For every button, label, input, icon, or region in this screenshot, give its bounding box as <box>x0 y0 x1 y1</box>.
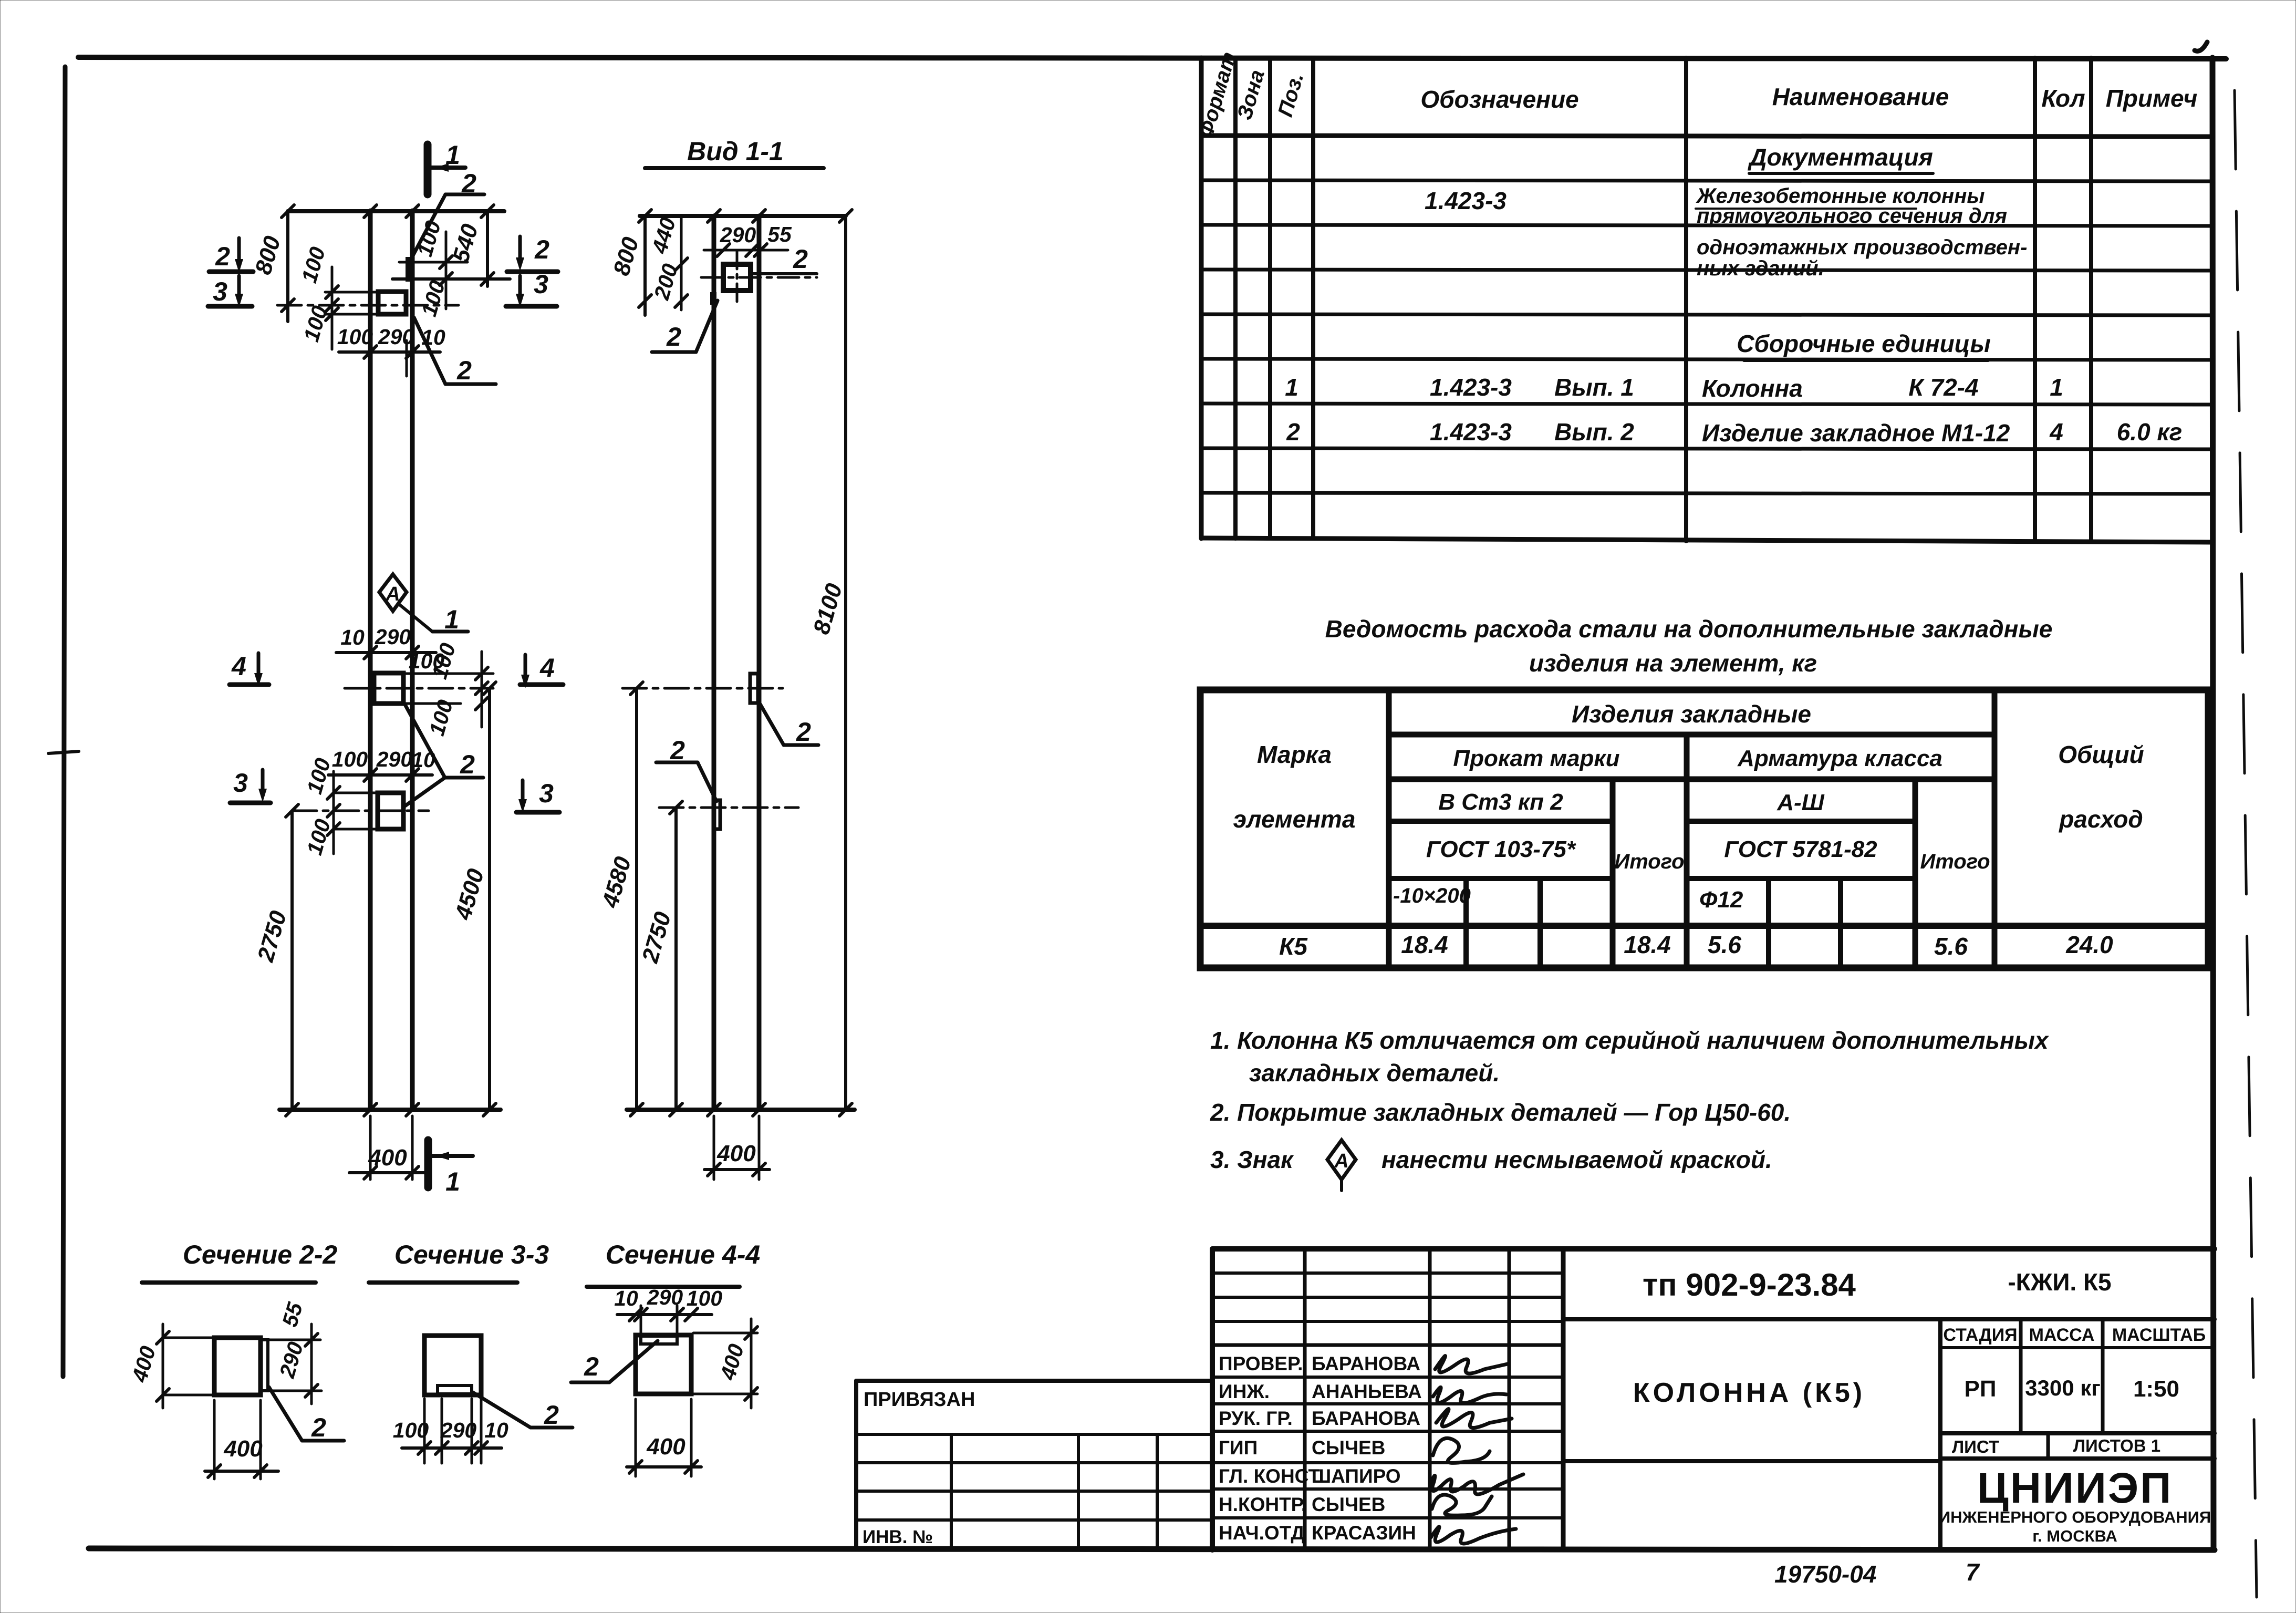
svg-text:К5: К5 <box>1279 933 1308 960</box>
svg-text:тп 902-9-23.84: тп 902-9-23.84 <box>1643 1267 1856 1302</box>
svg-text:5.6: 5.6 <box>1708 931 1741 958</box>
svg-text:A: A <box>385 583 400 605</box>
svg-text:Сборочные единицы: Сборочные единицы <box>1737 330 1991 357</box>
svg-text:Итого: Итого <box>1614 850 1684 873</box>
svg-text:Зона: Зона <box>1233 67 1269 122</box>
svg-text:КОЛОННА (К5): КОЛОННА (К5) <box>1633 1378 1865 1408</box>
svg-text:440: 440 <box>647 215 680 257</box>
svg-text:Сечение 4-4: Сечение 4-4 <box>606 1240 760 1269</box>
svg-text:3: 3 <box>534 270 548 299</box>
svg-text:400: 400 <box>716 1141 756 1166</box>
svg-text:4500: 4500 <box>450 866 490 923</box>
svg-text:ГИП: ГИП <box>1219 1437 1258 1459</box>
svg-text:Сечение 2-2: Сечение 2-2 <box>183 1240 338 1269</box>
svg-text:400: 400 <box>646 1434 685 1460</box>
svg-text:Обозначение: Обозначение <box>1420 86 1578 113</box>
svg-text:290: 290 <box>275 1339 308 1381</box>
svg-text:2: 2 <box>460 750 475 779</box>
svg-text:А-Ш: А-Ш <box>1776 790 1824 815</box>
svg-text:Ф12: Ф12 <box>1699 887 1743 913</box>
svg-text:400: 400 <box>715 1341 749 1383</box>
svg-text:изделия на элемент, кг: изделия на элемент, кг <box>1529 649 1817 677</box>
svg-text:Примеч: Примеч <box>2106 85 2198 112</box>
svg-text:-10×200: -10×200 <box>1393 884 1471 907</box>
svg-text:8100: 8100 <box>808 581 847 637</box>
svg-text:19750-04: 19750-04 <box>1774 1560 1876 1588</box>
svg-text:400: 400 <box>127 1343 160 1385</box>
svg-text:элемента: элемента <box>1233 805 1356 833</box>
svg-text:400: 400 <box>223 1436 263 1462</box>
svg-text:2: 2 <box>534 235 549 264</box>
svg-text:1: 1 <box>2050 374 2063 401</box>
svg-text:Изделия закладные: Изделия закладные <box>1572 700 1811 728</box>
svg-text:7: 7 <box>1966 1558 1980 1586</box>
svg-text:НАЧ.ОТД: НАЧ.ОТД <box>1219 1522 1305 1544</box>
svg-text:СЫЧЕВ: СЫЧЕВ <box>1312 1494 1385 1515</box>
svg-text:Общий: Общий <box>2058 741 2144 768</box>
svg-text:Документация: Документация <box>1747 143 1933 171</box>
svg-text:ЦНИИЭП: ЦНИИЭП <box>1977 1464 2173 1512</box>
svg-text:55: 55 <box>767 222 792 246</box>
svg-text:ИНВ. №: ИНВ. № <box>863 1527 933 1547</box>
svg-text:4580: 4580 <box>597 854 637 911</box>
svg-text:2: 2 <box>311 1413 326 1442</box>
svg-text:2: 2 <box>544 1400 559 1430</box>
svg-text:200: 200 <box>649 261 682 303</box>
svg-text:800: 800 <box>608 234 643 278</box>
svg-text:1. Колонна К5 отличается: 1. Колонна К5 отличается от серийной нал… <box>1210 1027 2050 1054</box>
svg-text:ИНЖЕНЕРНОГО ОБОРУДОВАНИЯ: ИНЖЕНЕРНОГО ОБОРУДОВАНИЯ <box>1939 1508 2211 1526</box>
svg-text:6.0 кг: 6.0 кг <box>2117 418 2183 446</box>
svg-text:100: 100 <box>337 325 373 349</box>
svg-text:Прокат марки: Прокат марки <box>1453 746 1619 771</box>
svg-text:г. МОСКВА: г. МОСКВА <box>2032 1527 2117 1545</box>
svg-text:100: 100 <box>417 278 450 319</box>
svg-text:3. Знак: 3. Знак <box>1210 1146 1294 1173</box>
svg-text:2: 2 <box>666 322 681 351</box>
svg-text:4: 4 <box>2049 418 2063 446</box>
svg-text:БАРАНОВА: БАРАНОВА <box>1312 1408 1420 1429</box>
svg-text:3: 3 <box>233 768 248 798</box>
svg-text:10: 10 <box>340 625 365 649</box>
svg-text:1:50: 1:50 <box>2133 1376 2179 1402</box>
svg-text:Вид 1-1: Вид 1-1 <box>687 137 784 166</box>
svg-text:одноэтажных производствен-: одноэтажных производствен- <box>1697 236 2027 259</box>
svg-text:Сечение 3-3: Сечение 3-3 <box>394 1240 549 1269</box>
svg-text:Поз.: Поз. <box>1274 70 1308 120</box>
svg-text:СТАДИЯ: СТАДИЯ <box>1943 1325 2017 1345</box>
svg-text:1: 1 <box>445 140 460 170</box>
svg-text:РУК. ГР.: РУК. ГР. <box>1219 1408 1293 1429</box>
svg-text:1: 1 <box>1285 374 1298 401</box>
svg-text:Наименование: Наименование <box>1772 83 1949 110</box>
svg-text:A: A <box>1334 1150 1348 1172</box>
svg-text:ных зданий.: ных зданий. <box>1697 257 1824 280</box>
svg-text:ГЛ. КОНСТ: ГЛ. КОНСТ <box>1219 1465 1320 1487</box>
svg-text:-КЖИ. К5: -КЖИ. К5 <box>2008 1268 2111 1296</box>
svg-text:Колонна: Колонна <box>1702 375 1803 402</box>
svg-text:Марка: Марка <box>1257 741 1332 768</box>
svg-text:1: 1 <box>445 1167 460 1196</box>
svg-text:2: 2 <box>456 356 472 385</box>
svg-text:290: 290 <box>376 747 413 771</box>
svg-text:Итого: Итого <box>1920 850 1990 873</box>
svg-text:ИНЖ.: ИНЖ. <box>1219 1381 1270 1402</box>
svg-text:Н.КОНТР.: Н.КОНТР. <box>1219 1494 1306 1515</box>
svg-text:4: 4 <box>231 652 246 681</box>
svg-text:Изделие закладное М1-12: Изделие закладное М1-12 <box>1702 419 2010 447</box>
svg-text:2: 2 <box>215 242 230 271</box>
svg-text:1.423-3: 1.423-3 <box>1430 418 1512 446</box>
svg-text:Арматура класса: Арматура класса <box>1737 746 1942 771</box>
svg-text:БАРАНОВА: БАРАНОВА <box>1312 1353 1420 1374</box>
svg-text:РП: РП <box>1965 1376 1997 1402</box>
svg-text:ПРОВЕР.: ПРОВЕР. <box>1219 1353 1303 1374</box>
svg-text:нанести несмываемой краско: нанести несмываемой краской. <box>1381 1146 1772 1173</box>
svg-text:100: 100 <box>299 303 332 345</box>
svg-text:Кол: Кол <box>2041 85 2085 112</box>
svg-text:прямоугольного сечения для: прямоугольного сечения для <box>1697 204 2007 228</box>
svg-text:закладных деталей.: закладных деталей. <box>1249 1059 1500 1087</box>
svg-text:540: 540 <box>448 221 483 265</box>
svg-text:290: 290 <box>378 325 414 349</box>
svg-text:18.4: 18.4 <box>1401 931 1448 958</box>
svg-text:100: 100 <box>332 747 368 771</box>
svg-text:ЛИСТОВ 1: ЛИСТОВ 1 <box>2073 1436 2160 1455</box>
svg-text:ЛИСТ: ЛИСТ <box>1952 1437 1999 1456</box>
svg-text:100: 100 <box>302 756 335 797</box>
svg-text:24.0: 24.0 <box>2065 931 2113 958</box>
svg-text:СЫЧЕВ: СЫЧЕВ <box>1312 1437 1385 1459</box>
svg-text:290: 290 <box>720 223 756 247</box>
svg-text:10: 10 <box>614 1286 638 1310</box>
svg-text:ПРИВЯЗАН: ПРИВЯЗАН <box>864 1389 975 1411</box>
svg-text:2: 2 <box>796 717 811 747</box>
svg-text:100: 100 <box>427 640 460 682</box>
svg-text:расход: расход <box>2058 805 2143 833</box>
svg-text:3300 кг: 3300 кг <box>2025 1376 2101 1400</box>
svg-text:МАССА: МАССА <box>2029 1325 2095 1345</box>
svg-text:В Ст3 кп 2: В Ст3 кп 2 <box>1438 789 1563 815</box>
svg-text:2: 2 <box>584 1352 599 1381</box>
svg-text:10: 10 <box>484 1418 508 1442</box>
svg-text:3: 3 <box>539 779 554 808</box>
svg-text:5.6: 5.6 <box>1934 933 1968 960</box>
svg-text:МАСШТАБ: МАСШТАБ <box>2112 1325 2206 1345</box>
svg-text:1.423-3: 1.423-3 <box>1425 187 1507 214</box>
svg-text:К 72-4: К 72-4 <box>1908 374 1978 401</box>
svg-text:2: 2 <box>1286 418 1300 446</box>
svg-text:ГОСТ 5781-82: ГОСТ 5781-82 <box>1724 836 1877 862</box>
svg-text:100: 100 <box>297 244 330 286</box>
svg-text:Ведомость расхода стали на: Ведомость расхода стали на дополнительны… <box>1325 615 2053 643</box>
svg-text:КРАСАЗИН: КРАСАЗИН <box>1312 1522 1416 1544</box>
svg-text:3: 3 <box>213 277 227 306</box>
svg-text:ГОСТ 103-75*: ГОСТ 103-75* <box>1426 836 1576 862</box>
svg-text:2750: 2750 <box>637 909 677 966</box>
svg-text:Вып. 1: Вып. 1 <box>1554 374 1634 401</box>
svg-text:100: 100 <box>687 1286 723 1310</box>
svg-text:4: 4 <box>539 653 555 683</box>
svg-text:2750: 2750 <box>253 908 292 965</box>
svg-text:1: 1 <box>444 605 459 634</box>
svg-text:АНАНЬЕВА: АНАНЬЕВА <box>1312 1381 1422 1402</box>
svg-text:18.4: 18.4 <box>1624 931 1671 958</box>
svg-text:ШАПИРО: ШАПИРО <box>1312 1465 1401 1487</box>
svg-text:400: 400 <box>368 1145 407 1171</box>
svg-text:100: 100 <box>302 816 335 858</box>
svg-text:800: 800 <box>250 233 285 277</box>
svg-text:1.423-3: 1.423-3 <box>1430 374 1512 401</box>
svg-text:55: 55 <box>277 1299 307 1330</box>
svg-text:2. Покрытие закладных дета: 2. Покрытие закладных деталей — Гор Ц50-… <box>1210 1099 1791 1126</box>
svg-text:290: 290 <box>375 625 411 649</box>
svg-text:2: 2 <box>793 244 808 274</box>
svg-text:Вып. 2: Вып. 2 <box>1554 418 1634 446</box>
